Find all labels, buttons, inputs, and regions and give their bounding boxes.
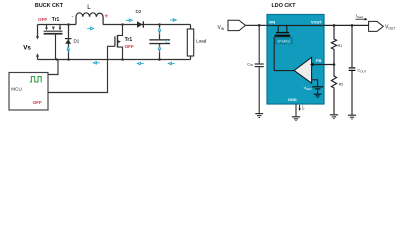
svg-text:OFF: OFF bbox=[38, 17, 47, 22]
svg-text:CIN: CIN bbox=[247, 61, 253, 67]
label (P M01) bbox=[276, 38, 293, 44]
reference cell VREF bbox=[312, 86, 323, 89]
svg-text:VREF: VREF bbox=[304, 85, 312, 91]
pass transistor P M01 bbox=[275, 26, 291, 37]
wire top rail left bbox=[38, 24, 77, 26]
svg-text:D1: D1 bbox=[74, 39, 80, 44]
svg-text:OFF: OFF bbox=[33, 100, 42, 105]
svg-text:D2: D2 bbox=[136, 9, 142, 14]
ground current arrow bbox=[298, 105, 304, 111]
svg-text:Vs: Vs bbox=[23, 44, 31, 51]
ground (Cin) bbox=[255, 113, 263, 118]
current arrow after D2 bbox=[170, 19, 177, 22]
wire GND pin bbox=[295, 104, 297, 116]
svg-text:VIN: VIN bbox=[218, 25, 225, 31]
current arrow through L bbox=[87, 27, 94, 30]
source Vs bbox=[23, 25, 39, 60]
svg-text:Tr1: Tr1 bbox=[125, 37, 133, 43]
wire top rail right of inductor bbox=[103, 24, 191, 26]
node Cout tap bbox=[351, 24, 354, 27]
load current arrow bbox=[356, 18, 365, 20]
svg-text:OFF: OFF bbox=[125, 44, 134, 49]
node Tr1 low-side drain bbox=[121, 23, 124, 26]
svg-text:VIN: VIN bbox=[269, 20, 276, 25]
PWM squarewave icon bbox=[30, 77, 42, 82]
LDO IC block bbox=[267, 15, 324, 105]
wire D1 branch bbox=[68, 25, 70, 60]
transistor Tr1 (high-side MOSFET) bbox=[44, 25, 63, 35]
wire LDO output bbox=[324, 24, 369, 26]
svg-text:R1: R1 bbox=[338, 44, 343, 48]
wire pass element rail bbox=[267, 25, 324, 27]
resistor R1 bbox=[331, 25, 336, 64]
node Tr1 low-side source bbox=[121, 58, 124, 61]
ground (R2) bbox=[330, 114, 338, 119]
wire VREF input bbox=[312, 80, 318, 86]
capacitor Cout bbox=[349, 25, 356, 114]
node D1 bottom bbox=[67, 58, 70, 61]
current arrow into C top bbox=[158, 28, 161, 35]
svg-text:VOUT: VOUT bbox=[311, 20, 323, 25]
transistor Tr1 (low-side MOSFET) bbox=[115, 25, 123, 60]
current arrow after L bbox=[126, 19, 133, 22]
junction gate-rail crossing bbox=[55, 58, 57, 60]
diode D2 bbox=[137, 21, 144, 27]
ground (Cout) bbox=[348, 115, 356, 120]
current arrow up through D1 bbox=[67, 47, 70, 54]
svg-text:+: + bbox=[105, 14, 109, 20]
MCU block bbox=[9, 73, 48, 111]
resistor R2 bbox=[331, 65, 336, 115]
wire gate to error amp output bbox=[274, 37, 294, 71]
svg-text:(P M01): (P M01) bbox=[278, 40, 291, 44]
ground (GND pin) bbox=[292, 116, 300, 121]
return current arrow 2 bbox=[137, 62, 144, 65]
svg-text:-: - bbox=[72, 14, 74, 20]
node Cin tap bbox=[258, 24, 261, 27]
op-amp error amplifier bbox=[294, 57, 311, 83]
wire Tr1 low-side gate to MCU bbox=[48, 46, 115, 92]
node cap bottom bbox=[158, 58, 161, 61]
wire bottom rail bbox=[38, 59, 191, 61]
wire FB input bbox=[312, 64, 334, 66]
current arrow below C bbox=[158, 46, 161, 53]
FB input arrowhead bbox=[310, 63, 314, 66]
svg-text:L: L bbox=[87, 4, 91, 11]
svg-text:LDO CKT: LDO CKT bbox=[272, 3, 297, 9]
svg-text:Load: Load bbox=[196, 38, 207, 43]
svg-text:MCU: MCU bbox=[11, 87, 21, 92]
node FB bbox=[333, 63, 336, 66]
node output cap top bbox=[158, 23, 161, 26]
inductor L bbox=[76, 13, 103, 25]
input tag Vin bbox=[228, 20, 245, 30]
svg-text:BUCK CKT: BUCK CKT bbox=[35, 3, 64, 9]
svg-text:FB: FB bbox=[316, 58, 321, 63]
return current arrow 3 bbox=[168, 62, 175, 65]
wire Tr1 gate to MCU bbox=[55, 35, 57, 60]
svg-text:Iload: Iload bbox=[356, 13, 363, 19]
svg-text:GND: GND bbox=[288, 97, 297, 102]
svg-text:COUT: COUT bbox=[357, 68, 366, 74]
node D1 top bbox=[67, 23, 70, 26]
svg-text:Tr1: Tr1 bbox=[52, 17, 60, 23]
return current arrow 1 bbox=[93, 62, 100, 65]
svg-text:VOUT: VOUT bbox=[385, 25, 395, 31]
wire Vin to LDO bbox=[245, 24, 267, 26]
output tag Vout bbox=[369, 21, 384, 31]
capacitor Cin bbox=[255, 25, 264, 113]
capacitor C bbox=[149, 25, 170, 60]
resistor Load bbox=[187, 25, 193, 60]
node R1 tap bbox=[333, 24, 336, 27]
diode D1 bbox=[65, 38, 72, 44]
svg-text:R2: R2 bbox=[339, 83, 344, 87]
ground (VREF) bbox=[314, 94, 322, 98]
